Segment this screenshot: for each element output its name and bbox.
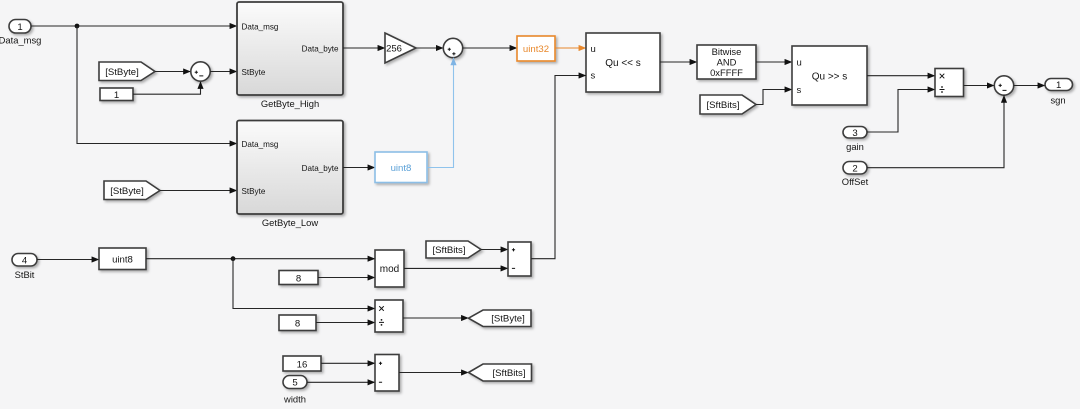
svg-text:Data_msg: Data_msg [242,22,279,31]
svg-text:StByte: StByte [242,68,266,77]
svg-text:Qu >> s: Qu >> s [812,71,848,82]
wire sum S3 to outport [1014,85,1045,87]
svg-text:Qu << s: Qu << s [605,58,641,69]
svg-text:StBit: StBit [15,269,35,280]
wire from-tag to sum S1 [155,71,191,73]
data type conversion uint8 (plain) [99,248,146,270]
svg-text:2: 2 [852,163,857,174]
wire GetByte_Low out to uint8 [343,167,375,169]
svg-text:[StByte]: [StByte] [491,314,525,325]
junction on StBit wire [231,256,236,261]
svg-text:8: 8 [296,273,301,284]
svg-text:width: width [283,394,306,405]
wire Qu >> s to product P1 [867,75,935,77]
wire constant16 to sum S4 [321,362,375,364]
wire GetByte_High out to gain [343,47,385,49]
wire inport5 to sum S4 minus [307,381,375,383]
wire bitwise AND to Qu >> s u [756,61,792,63]
svg-text:sgn: sgn [1050,95,1065,106]
shift block Qu >> s [792,46,867,105]
wire sum S4 to goto [SftBits] [399,372,469,374]
svg-text:Bitwise: Bitwise [712,46,742,57]
inport 1 Data_msg [0,20,41,46]
svg-text:Data_msg: Data_msg [242,140,279,149]
svg-text:1: 1 [114,90,119,101]
wire uint8 plain to mod [146,258,375,260]
sum S4 [375,355,399,392]
product P2 [375,300,403,332]
wire branch to GetByte_Low Data_msg [77,26,237,144]
goto tag [SftBits] [469,364,532,381]
gain 256 [385,33,416,63]
bitwise AND 0xFFFF [697,45,756,79]
svg-text:256: 256 [386,44,402,55]
from tag [StByte] lower [104,181,160,200]
wire branch to product P2 [233,259,375,309]
data type conversion uint32 [517,36,555,61]
outport 1 sgn [1045,79,1073,106]
svg-text:[StByte]: [StByte] [110,186,144,197]
wire from-tag to subtract S5 plus [481,249,508,251]
subtract S5 [508,242,531,276]
constant 8 lower [279,315,316,331]
wire constant8 to mod second input [318,277,375,279]
sum S2 [443,38,462,57]
svg-text:s: s [797,85,802,96]
inport 4 StBit [12,254,37,280]
wire inport1 to GetByte_High Data_msg [31,25,237,27]
from tag [SftBits] lower [426,241,481,258]
wire gain to sum S2 [416,47,443,49]
svg-text:Data_msg: Data_msg [0,34,41,45]
svg-text:Data_byte: Data_byte [302,164,339,173]
sum S3 [994,76,1013,95]
wire uint32 to shift u (orange) [555,47,586,49]
junction on Data_msg wire [75,24,80,29]
svg-text:1: 1 [17,22,22,33]
wire inport4 to uint8 plain [37,259,99,261]
svg-text:s: s [591,71,596,82]
svg-text:16: 16 [297,359,308,370]
from tag [StByte] upper [99,62,155,81]
wire constant8 lower to product P2 [316,322,375,324]
inport 3 gain [843,127,867,153]
svg-text:AND: AND [717,57,737,68]
constant 8 upper [279,271,318,285]
wire shift-left to bitwise AND [660,61,697,63]
svg-text:uint32: uint32 [523,44,549,55]
inport 2 OffSet [842,162,869,188]
svg-text:1: 1 [1056,80,1061,91]
wire product P1 to sum S3 [964,85,995,87]
wire sum S2 to uint32 [463,47,517,49]
wire inport3 to product P1 second input [867,90,935,133]
shift block Qu << s [586,33,660,92]
wire subtract S5 to Qu << s s input [531,76,586,259]
svg-text:u: u [591,44,596,55]
svg-text:mod: mod [380,264,399,275]
svg-text:5: 5 [292,378,297,389]
constant 1 [100,88,133,101]
subsystem GetByte_Low [237,121,343,229]
data type conversion uint8 (blue) [375,152,427,183]
from tag [SftBits] upper [700,95,756,114]
inport 5 width [283,376,307,405]
wire from-tag to GetByte_Low StByte [160,190,237,192]
sum S1 [191,62,210,81]
svg-text:StByte: StByte [242,187,266,196]
mod block [375,250,404,287]
svg-text:4: 4 [22,255,28,266]
svg-text:GetByte_High: GetByte_High [261,98,319,109]
svg-text:gain: gain [846,141,864,152]
wire from-tag to Qu >> s s [756,90,792,105]
svg-text:u: u [797,58,802,69]
svg-text:OffSet: OffSet [842,176,869,187]
wire constant1 to sum S1 south [133,81,201,94]
constant 16 [283,356,321,371]
svg-text:[SftBits]: [SftBits] [432,245,465,256]
svg-text:[StByte]: [StByte] [105,67,139,78]
svg-text:0xFFFF: 0xFFFF [710,67,743,78]
wire sum S1 to GetByte_High StByte [210,71,237,73]
svg-text:8: 8 [295,319,300,330]
product P1 [935,69,964,97]
svg-text:GetByte_Low: GetByte_Low [262,217,319,228]
wire inport2 to sum S3 south [867,95,1004,167]
svg-text:3: 3 [852,128,857,139]
svg-text:Data_byte: Data_byte [302,45,339,54]
subsystem GetByte_High [237,2,343,109]
svg-text:uint8: uint8 [391,163,412,174]
svg-text:[SftBits]: [SftBits] [706,100,739,111]
wire uint8 to sum S2 south (blue) [427,58,454,168]
svg-text:uint8: uint8 [112,254,133,265]
goto tag [StByte] [469,310,532,327]
svg-text:[SftBits]: [SftBits] [492,368,525,379]
wire product P2 to goto [StByte] [403,317,469,319]
wire mod to subtract S5 [404,267,508,269]
